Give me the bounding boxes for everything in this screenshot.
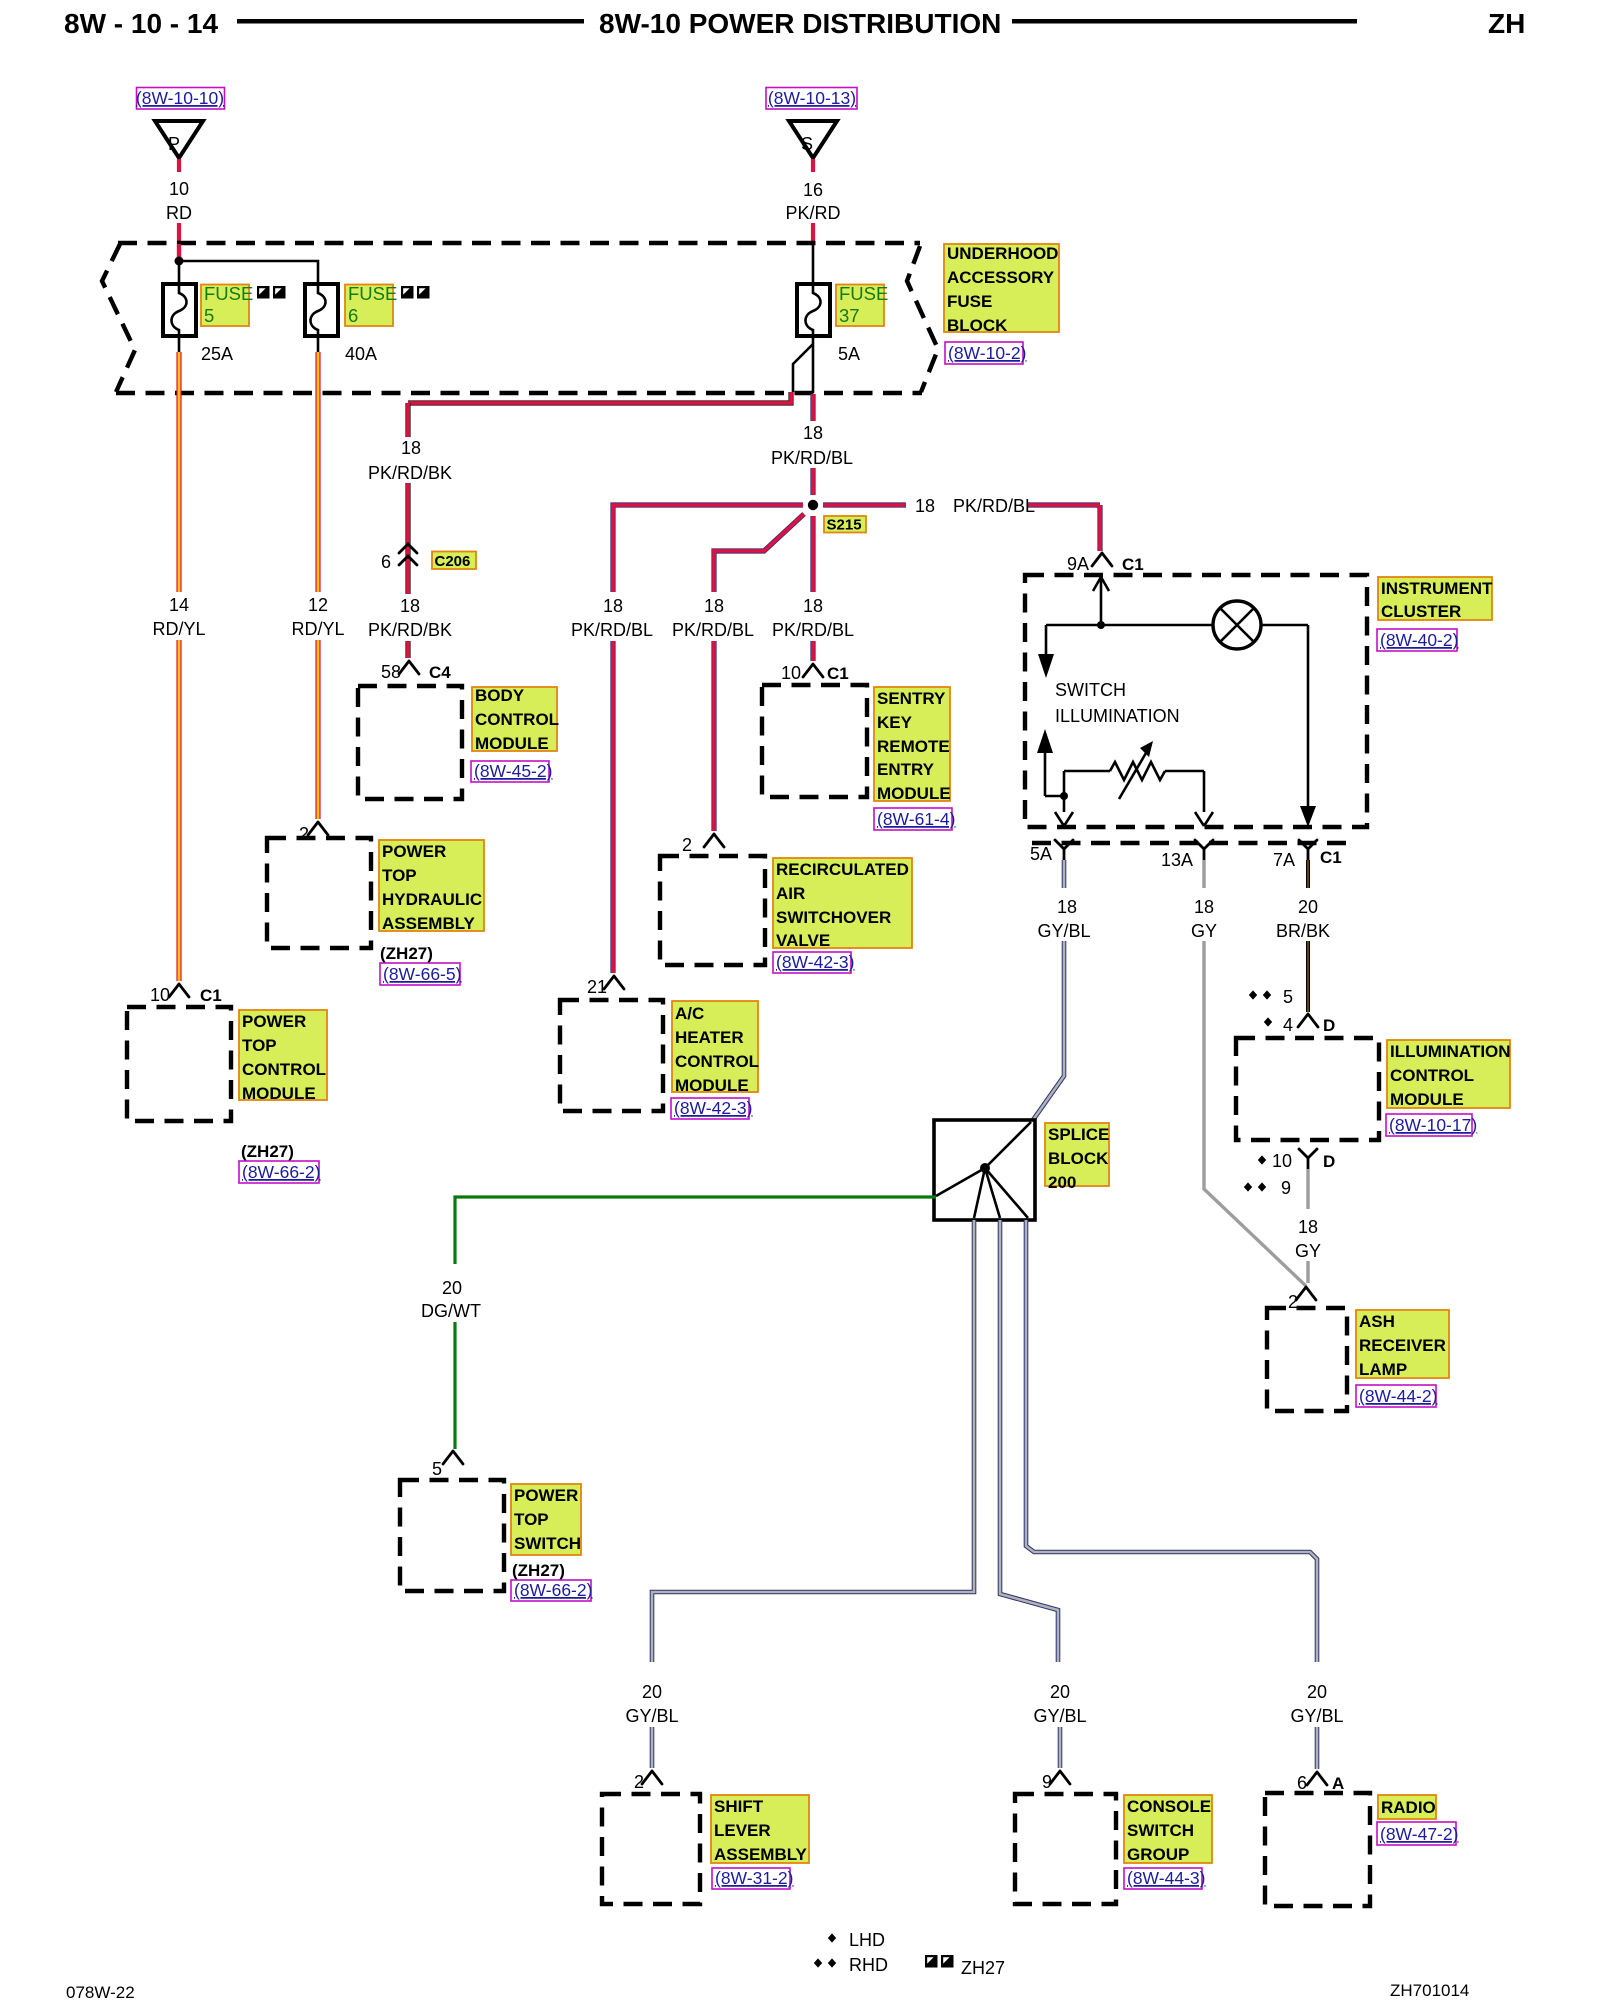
svg-text:REMOTE: REMOTE: [877, 737, 950, 756]
svg-text:A/C: A/C: [675, 1004, 704, 1023]
svg-text:MODULE: MODULE: [877, 784, 951, 803]
link 8W-10-13: [766, 88, 857, 110]
connector C4 pin 58: [381, 661, 451, 682]
connector pin 9 console: [1042, 1771, 1070, 1792]
switch illumination text: [1055, 680, 1180, 726]
wire PK/RD from S to fuse block: [811, 223, 815, 244]
wire S215 to instrument cluster: [823, 505, 1100, 551]
power top control module label: [239, 1010, 327, 1103]
svg-text:20: 20: [1307, 1682, 1327, 1702]
svg-text:HYDRAULIC: HYDRAULIC: [382, 890, 482, 909]
connector Y pin 5A: [1030, 840, 1073, 864]
radio box: [1265, 1793, 1370, 1906]
connector pin 5 power top switch: [432, 1451, 463, 1479]
page title: [599, 8, 1001, 39]
svg-text:(ZH27): (ZH27): [241, 1142, 294, 1161]
wire 18 GY from 13A upper: [1202, 860, 1205, 888]
svg-text:CONTROL: CONTROL: [475, 710, 559, 729]
link 8W-42-3 a/c heater: [671, 1098, 752, 1119]
svg-text:2: 2: [682, 835, 692, 855]
page header right: [1488, 8, 1525, 39]
svg-text:A: A: [1332, 1774, 1344, 1793]
splice S215 dot: [808, 500, 818, 510]
footer right: [1390, 1981, 1469, 2000]
link 8W-40-2: [1377, 629, 1458, 651]
power top switch label: [511, 1484, 581, 1555]
power feed symbol S: [789, 121, 837, 158]
rheostat output: [1195, 771, 1213, 826]
svg-text:SHIFT: SHIFT: [714, 1797, 764, 1816]
value 40A: [345, 344, 377, 364]
fuse 37 output wires: [793, 336, 813, 393]
link 8W-47-2: [1377, 1822, 1458, 1845]
svg-text:FUSE: FUSE: [204, 283, 253, 304]
wire stub PK/RD below S: [811, 159, 815, 172]
svg-text:GY: GY: [1295, 1241, 1321, 1261]
wire 20 GY/BL to radio upper: [1026, 1220, 1317, 1662]
svg-text:20: 20: [1298, 897, 1318, 917]
svg-text:8W-10 POWER DISTRIBUTION: 8W-10 POWER DISTRIBUTION: [599, 8, 1001, 39]
power top control module box: [127, 1007, 231, 1121]
svg-text:SPLICE: SPLICE: [1048, 1125, 1109, 1144]
wire RD from P to fuse block: [177, 223, 181, 258]
console switch group box: [1015, 1794, 1116, 1904]
fuse F6 name label: [345, 283, 397, 326]
label 20 GY/BL radio: [1290, 1682, 1343, 1726]
svg-text:PK/RD/BL: PK/RD/BL: [772, 620, 854, 640]
svg-text:(8W-40-2): (8W-40-2): [1380, 630, 1458, 650]
note ZH27 power top control: [241, 1142, 294, 1161]
connector pin 2 shift lever: [634, 1771, 662, 1792]
svg-text:(8W-66-2): (8W-66-2): [514, 1580, 592, 1600]
wire 14 RD/YL lower: [176, 640, 181, 981]
svg-text:INSTRUMENT: INSTRUMENT: [1381, 579, 1493, 598]
connector Y pin 13A: [1161, 840, 1213, 870]
svg-text:18: 18: [915, 496, 935, 516]
svg-text:2: 2: [1288, 1292, 1298, 1312]
svg-text:(8W-45-2): (8W-45-2): [474, 761, 552, 781]
svg-text:CONTROL: CONTROL: [1390, 1066, 1474, 1085]
illumination control module label: [1387, 1040, 1511, 1109]
svg-text:ZH: ZH: [1488, 8, 1525, 39]
fuse F5 name label: [201, 283, 253, 326]
wire S215 to recirc valve upper: [714, 514, 804, 592]
svg-text:10: 10: [781, 663, 801, 683]
connector C1 pin 10 power top control: [150, 984, 222, 1005]
wire 18 GY from pin D lower: [1306, 1261, 1309, 1283]
label 20 DG/WT: [421, 1278, 481, 1321]
ash receiver lamp label: [1356, 1310, 1449, 1379]
label 18 PK/RD/BL recirc: [672, 596, 754, 640]
wire 20 GY/BL to shift lever upper: [652, 1220, 974, 1662]
svg-text:D: D: [1323, 1016, 1335, 1035]
label 18 GY: [1191, 897, 1217, 941]
page header left: [64, 8, 218, 39]
svg-text:GY/BL: GY/BL: [1033, 1706, 1086, 1726]
svg-text:(ZH27): (ZH27): [512, 1561, 565, 1580]
svg-text:CLUSTER: CLUSTER: [1381, 602, 1461, 621]
rheostat junction dot: [1060, 771, 1068, 812]
power top hydraulic assembly label: [379, 840, 484, 933]
svg-text:20: 20: [1050, 1682, 1070, 1702]
svg-text:C1: C1: [1320, 848, 1342, 867]
a/c heater control module box: [560, 1000, 663, 1111]
splice S215 label: [824, 516, 866, 534]
svg-text:LHD: LHD: [849, 1930, 885, 1950]
svg-text:UNDERHOOD: UNDERHOOD: [947, 244, 1058, 263]
cluster exit arrow 5A: [1055, 812, 1073, 826]
svg-text:C1: C1: [200, 986, 222, 1005]
wire 18 PK/RD/BK lower: [405, 641, 410, 658]
svg-text:18: 18: [803, 423, 823, 443]
a/c heater control module label: [672, 1001, 759, 1095]
label 20 GY/BL shift: [625, 1682, 678, 1726]
wire branch to fuse 6: [181, 261, 318, 284]
wire 20 GY/BL to console lower: [1058, 1727, 1063, 1768]
link 8W-10-17: [1386, 1114, 1477, 1136]
connector D pin 4: [1298, 1014, 1335, 1035]
svg-text:37: 37: [839, 305, 860, 326]
svg-text:ZH27: ZH27: [961, 1958, 1005, 1978]
link 8W-45-2: [471, 761, 552, 782]
header rule left: [237, 19, 584, 24]
svg-text:RD: RD: [166, 203, 192, 223]
header rule right: [1012, 19, 1357, 24]
svg-text:5: 5: [432, 1459, 442, 1479]
svg-text:P: P: [168, 134, 180, 154]
wire 20 GY/BL to radio lower: [1315, 1727, 1320, 1769]
svg-text:C206: C206: [435, 553, 471, 570]
body control module box: [358, 686, 462, 799]
svg-text:RECIRCULATED: RECIRCULATED: [776, 860, 909, 879]
svg-text:16: 16: [803, 180, 823, 200]
svg-text:6: 6: [348, 305, 358, 326]
svg-text:TOP: TOP: [242, 1036, 277, 1055]
svg-text:6: 6: [381, 552, 391, 572]
svg-text:58: 58: [381, 662, 401, 682]
svg-text:VALVE: VALVE: [776, 931, 830, 950]
svg-text:ASSEMBLY: ASSEMBLY: [382, 914, 476, 933]
wire 18 PK/RD/BK horizontal under block: [408, 392, 791, 403]
svg-text:10: 10: [150, 985, 170, 1005]
wire S215 to sentry lower: [810, 641, 815, 661]
label 12 RD/YL: [291, 595, 344, 639]
ZH27 markers fuse 6: [401, 286, 430, 299]
svg-text:LAMP: LAMP: [1359, 1360, 1407, 1379]
svg-text:MODULE: MODULE: [1390, 1090, 1464, 1109]
svg-text:ACCESSORY: ACCESSORY: [947, 268, 1055, 287]
label 18 PK/RD/BL a/c heater: [571, 596, 653, 640]
link 8W-44-3: [1124, 1868, 1205, 1889]
junction dot at fuse feed: [175, 257, 184, 266]
connector C1 pin 9A: [1067, 553, 1144, 574]
underhood accessory fuse block outline: [102, 243, 938, 393]
label 14 RD/YL: [152, 595, 205, 639]
connector D pin 10: [1258, 1149, 1335, 1171]
svg-text:CONTROL: CONTROL: [242, 1060, 326, 1079]
svg-text:C4: C4: [429, 663, 451, 682]
wire 12 RD/YL lower: [315, 640, 320, 819]
connector A pin 6 radio: [1297, 1772, 1344, 1793]
wire 18 GY/BL from 5A upper: [1062, 860, 1067, 888]
wire 20 BR/BK lower: [1306, 941, 1310, 1012]
svg-text:SWITCH: SWITCH: [1055, 680, 1126, 700]
connector pin 2 recirc valve: [682, 834, 724, 855]
legend LHD: [828, 1930, 885, 1950]
link 8W-10-2: [945, 342, 1026, 364]
svg-text:40A: 40A: [345, 344, 377, 364]
label 18 PK/RD/BL sentry: [772, 596, 854, 640]
note ZH27 power top switch: [512, 1561, 565, 1580]
label 10 RD: [166, 179, 192, 223]
svg-text:(8W-66-5): (8W-66-5): [383, 964, 461, 984]
svg-text:(8W-10-13): (8W-10-13): [768, 88, 856, 108]
svg-text:BR/BK: BR/BK: [1276, 921, 1330, 941]
svg-text:RD/YL: RD/YL: [291, 619, 344, 639]
wire S215 to a/c heater lower: [610, 641, 615, 973]
wire S215 to sentry upper: [810, 516, 815, 592]
svg-text:ENTRY: ENTRY: [877, 760, 935, 779]
svg-text:CONSOLE: CONSOLE: [1127, 1797, 1211, 1816]
connector pin 2 hydraulic assembly: [299, 822, 328, 844]
connector pin 2 ash receiver lamp: [1288, 1287, 1316, 1312]
svg-text:5A: 5A: [838, 344, 860, 364]
svg-text:TOP: TOP: [382, 866, 417, 885]
label 18 GY/BL: [1037, 897, 1090, 941]
label 18 PK/RD/BK: [368, 438, 452, 483]
wire 20 GY/BL to console upper: [1000, 1220, 1058, 1662]
link 8W-66-2 switch: [511, 1580, 592, 1601]
svg-text:PK/RD/BK: PK/RD/BK: [368, 463, 452, 483]
rheostat: [1064, 741, 1204, 799]
fuse F6: [305, 284, 338, 336]
svg-text:(8W-42-3): (8W-42-3): [674, 1098, 752, 1118]
illumination control module box: [1236, 1038, 1379, 1140]
label 20 GY/BL console: [1033, 1682, 1086, 1726]
svg-text:PK/RD/BL: PK/RD/BL: [672, 620, 754, 640]
svg-text:D: D: [1323, 1152, 1335, 1171]
body control module label: [472, 686, 559, 753]
svg-text:(8W-47-2): (8W-47-2): [1380, 1824, 1458, 1844]
svg-text:5A: 5A: [1030, 844, 1052, 864]
svg-text:LEVER: LEVER: [714, 1821, 771, 1840]
wire RD inside block: [177, 244, 181, 257]
label 18 GY lower: [1295, 1217, 1321, 1261]
RHD marker pin 9: [1244, 1178, 1291, 1198]
wire 18 PK/RD/BL from fuse 37: [810, 394, 815, 421]
value 5A: [838, 344, 860, 364]
LHD marker pin 4: [1264, 1015, 1293, 1035]
wire 18 PK/RD/BK upper: [405, 403, 410, 437]
svg-text:RHD: RHD: [849, 1955, 888, 1975]
svg-text:MODULE: MODULE: [475, 734, 549, 753]
splice block 200: [934, 1120, 1035, 1220]
link 8W-10-10: [136, 88, 225, 110]
label 16 PK/RD: [785, 180, 840, 223]
power feed symbol P: [155, 121, 203, 158]
note ZH27 hydraulic: [380, 944, 433, 963]
svg-text:PK/RD/BL: PK/RD/BL: [953, 496, 1035, 516]
svg-text:RADIO: RADIO: [1381, 1798, 1436, 1817]
svg-text:POWER: POWER: [242, 1012, 306, 1031]
sentry key remote entry module label: [874, 687, 951, 803]
link 8W-42-3 recirc: [773, 952, 854, 973]
svg-text:25A: 25A: [201, 344, 233, 364]
legend ZH27: [925, 1955, 1005, 1978]
label 18 PK/RD/BK second: [368, 596, 452, 640]
wire 12 RD/YL upper: [315, 352, 320, 592]
link 8W-61-4: [874, 808, 955, 830]
svg-text:078W-22: 078W-22: [66, 1983, 135, 2000]
legend RHD: [814, 1955, 888, 1975]
cluster entry arrow: [1093, 577, 1109, 622]
wire 20 GY/BL to shift lever lower: [650, 1727, 655, 1768]
svg-text:FUSE: FUSE: [947, 292, 992, 311]
instrument cluster box: [1025, 575, 1367, 827]
svg-text:13A: 13A: [1161, 850, 1193, 870]
svg-text:5: 5: [1283, 987, 1293, 1007]
svg-text:KEY: KEY: [877, 713, 913, 732]
svg-text:18: 18: [603, 596, 623, 616]
svg-text:ILLUMINATION: ILLUMINATION: [1390, 1042, 1511, 1061]
svg-text:GY/BL: GY/BL: [1290, 1706, 1343, 1726]
svg-text:14: 14: [169, 595, 189, 615]
svg-text:ASH: ASH: [1359, 1312, 1395, 1331]
link 8W-66-5: [380, 963, 461, 985]
instrument cluster label: [1378, 577, 1493, 621]
fuse F37: [797, 284, 830, 336]
svg-text:SWITCH: SWITCH: [514, 1534, 581, 1553]
wire 18 GY/BL from 5A lower: [1033, 941, 1064, 1120]
recirculated air switchover valve box: [660, 856, 765, 965]
svg-text:(8W-10-2): (8W-10-2): [948, 343, 1026, 363]
svg-text:SENTRY: SENTRY: [877, 689, 946, 708]
wire 18 GY from pin D upper: [1306, 1169, 1309, 1209]
wire below fuse 6: [317, 336, 320, 352]
svg-text:(8W-10-10): (8W-10-10): [136, 88, 224, 108]
svg-text:S: S: [801, 134, 813, 154]
svg-text:10: 10: [169, 179, 189, 199]
svg-text:FUSE: FUSE: [348, 283, 397, 304]
wire 18 GY from 13A lower diagonal to ash lamp: [1204, 941, 1306, 1286]
svg-text:POWER: POWER: [382, 842, 446, 861]
svg-text:GY/BL: GY/BL: [625, 1706, 678, 1726]
svg-text:18: 18: [704, 596, 724, 616]
svg-text:GY/BL: GY/BL: [1037, 921, 1090, 941]
svg-text:MODULE: MODULE: [242, 1084, 316, 1103]
switch illumination return arrow: [1037, 729, 1062, 796]
cluster junction dot: [1097, 621, 1105, 629]
connector line C1 below cluster: [1032, 841, 1348, 845]
connector C206: [381, 544, 476, 572]
svg-text:(8W-44-2): (8W-44-2): [1359, 1386, 1437, 1406]
power top switch box: [400, 1480, 504, 1591]
footer left: [66, 1983, 135, 2000]
svg-text:9: 9: [1042, 1772, 1052, 1792]
svg-text:BODY: BODY: [475, 686, 525, 705]
svg-text:PK/RD/BL: PK/RD/BL: [771, 448, 853, 468]
svg-text:5: 5: [204, 305, 214, 326]
svg-text:SWITCH: SWITCH: [1127, 1821, 1194, 1840]
svg-text:C1: C1: [827, 664, 849, 683]
label 18 PK/RD/BL fuse 37: [771, 423, 853, 468]
label 18 PK/RD/BL cluster feed: [915, 496, 1035, 516]
svg-text:18: 18: [400, 596, 420, 616]
wire to fuse 5: [178, 264, 181, 284]
svg-text:200: 200: [1048, 1173, 1076, 1192]
svg-text:GY: GY: [1191, 921, 1217, 941]
wire 20 BR/BK upper: [1306, 860, 1310, 888]
connector C1 pin 10 sentry: [781, 663, 849, 683]
shift lever assembly label: [711, 1795, 809, 1864]
wire below fuse 5: [178, 336, 181, 352]
wire 14 RD/YL upper: [176, 352, 181, 592]
svg-text:6: 6: [1297, 1773, 1307, 1793]
illumination lamp: [1213, 601, 1261, 649]
link 8W-31-2: [712, 1868, 793, 1889]
wire stub RD below P: [177, 159, 181, 172]
wire S215 to a/c heater upper: [613, 505, 803, 592]
svg-text:RECEIVER: RECEIVER: [1359, 1336, 1446, 1355]
svg-text:C1: C1: [1122, 555, 1144, 574]
label 20 BR/BK: [1276, 897, 1330, 941]
svg-text:FUSE: FUSE: [839, 283, 888, 304]
ash receiver lamp box: [1267, 1308, 1347, 1411]
fuse F37 name label: [836, 283, 888, 326]
ZH27 markers fuse 5: [257, 286, 286, 299]
svg-text:HEATER: HEATER: [675, 1028, 744, 1047]
svg-text:SWITCHOVER: SWITCHOVER: [776, 908, 891, 927]
RHD marker pin 5: [1249, 987, 1293, 1007]
lamp return wire and exit arrow 7A: [1300, 625, 1316, 827]
svg-text:18: 18: [1194, 897, 1214, 917]
svg-text:18: 18: [803, 596, 823, 616]
sentry key remote entry module box: [762, 685, 867, 797]
wire 20 DG/WT upper: [455, 1197, 936, 1264]
svg-text:7A: 7A: [1273, 850, 1295, 870]
connector Y pin 7A C1: [1273, 840, 1342, 870]
wire 20 DG/WT lower: [453, 1322, 456, 1449]
svg-text:PK/RD/BL: PK/RD/BL: [571, 620, 653, 640]
wire S215 to recirc valve lower: [711, 641, 716, 831]
svg-text:(8W-61-4): (8W-61-4): [877, 809, 955, 829]
svg-text:(8W-31-2): (8W-31-2): [715, 1868, 793, 1888]
svg-text:(8W-44-3): (8W-44-3): [1127, 1868, 1205, 1888]
connector pin 21 a/c heater: [587, 976, 624, 997]
cluster lamp bus wire: [1046, 624, 1308, 627]
svg-text:20: 20: [442, 1278, 462, 1298]
svg-text:2: 2: [299, 824, 309, 844]
svg-text:GROUP: GROUP: [1127, 1845, 1189, 1864]
svg-text:9A: 9A: [1067, 554, 1089, 574]
svg-text:(8W-66-2): (8W-66-2): [242, 1162, 320, 1182]
svg-text:BLOCK: BLOCK: [1048, 1149, 1109, 1168]
svg-text:2: 2: [634, 1772, 644, 1792]
svg-text:21: 21: [587, 977, 607, 997]
svg-text:TOP: TOP: [514, 1510, 549, 1529]
svg-text:20: 20: [642, 1682, 662, 1702]
svg-text:AIR: AIR: [776, 884, 805, 903]
svg-text:MODULE: MODULE: [675, 1076, 749, 1095]
power top hydraulic assembly box: [267, 838, 371, 948]
svg-text:(8W-10-17): (8W-10-17): [1389, 1115, 1477, 1135]
svg-text:PK/RD/BK: PK/RD/BK: [368, 620, 452, 640]
svg-text:ZH701014: ZH701014: [1390, 1981, 1469, 2000]
value 25A: [201, 344, 233, 364]
svg-text:DG/WT: DG/WT: [421, 1301, 481, 1321]
svg-text:RD/YL: RD/YL: [152, 619, 205, 639]
svg-text:18: 18: [1057, 897, 1077, 917]
